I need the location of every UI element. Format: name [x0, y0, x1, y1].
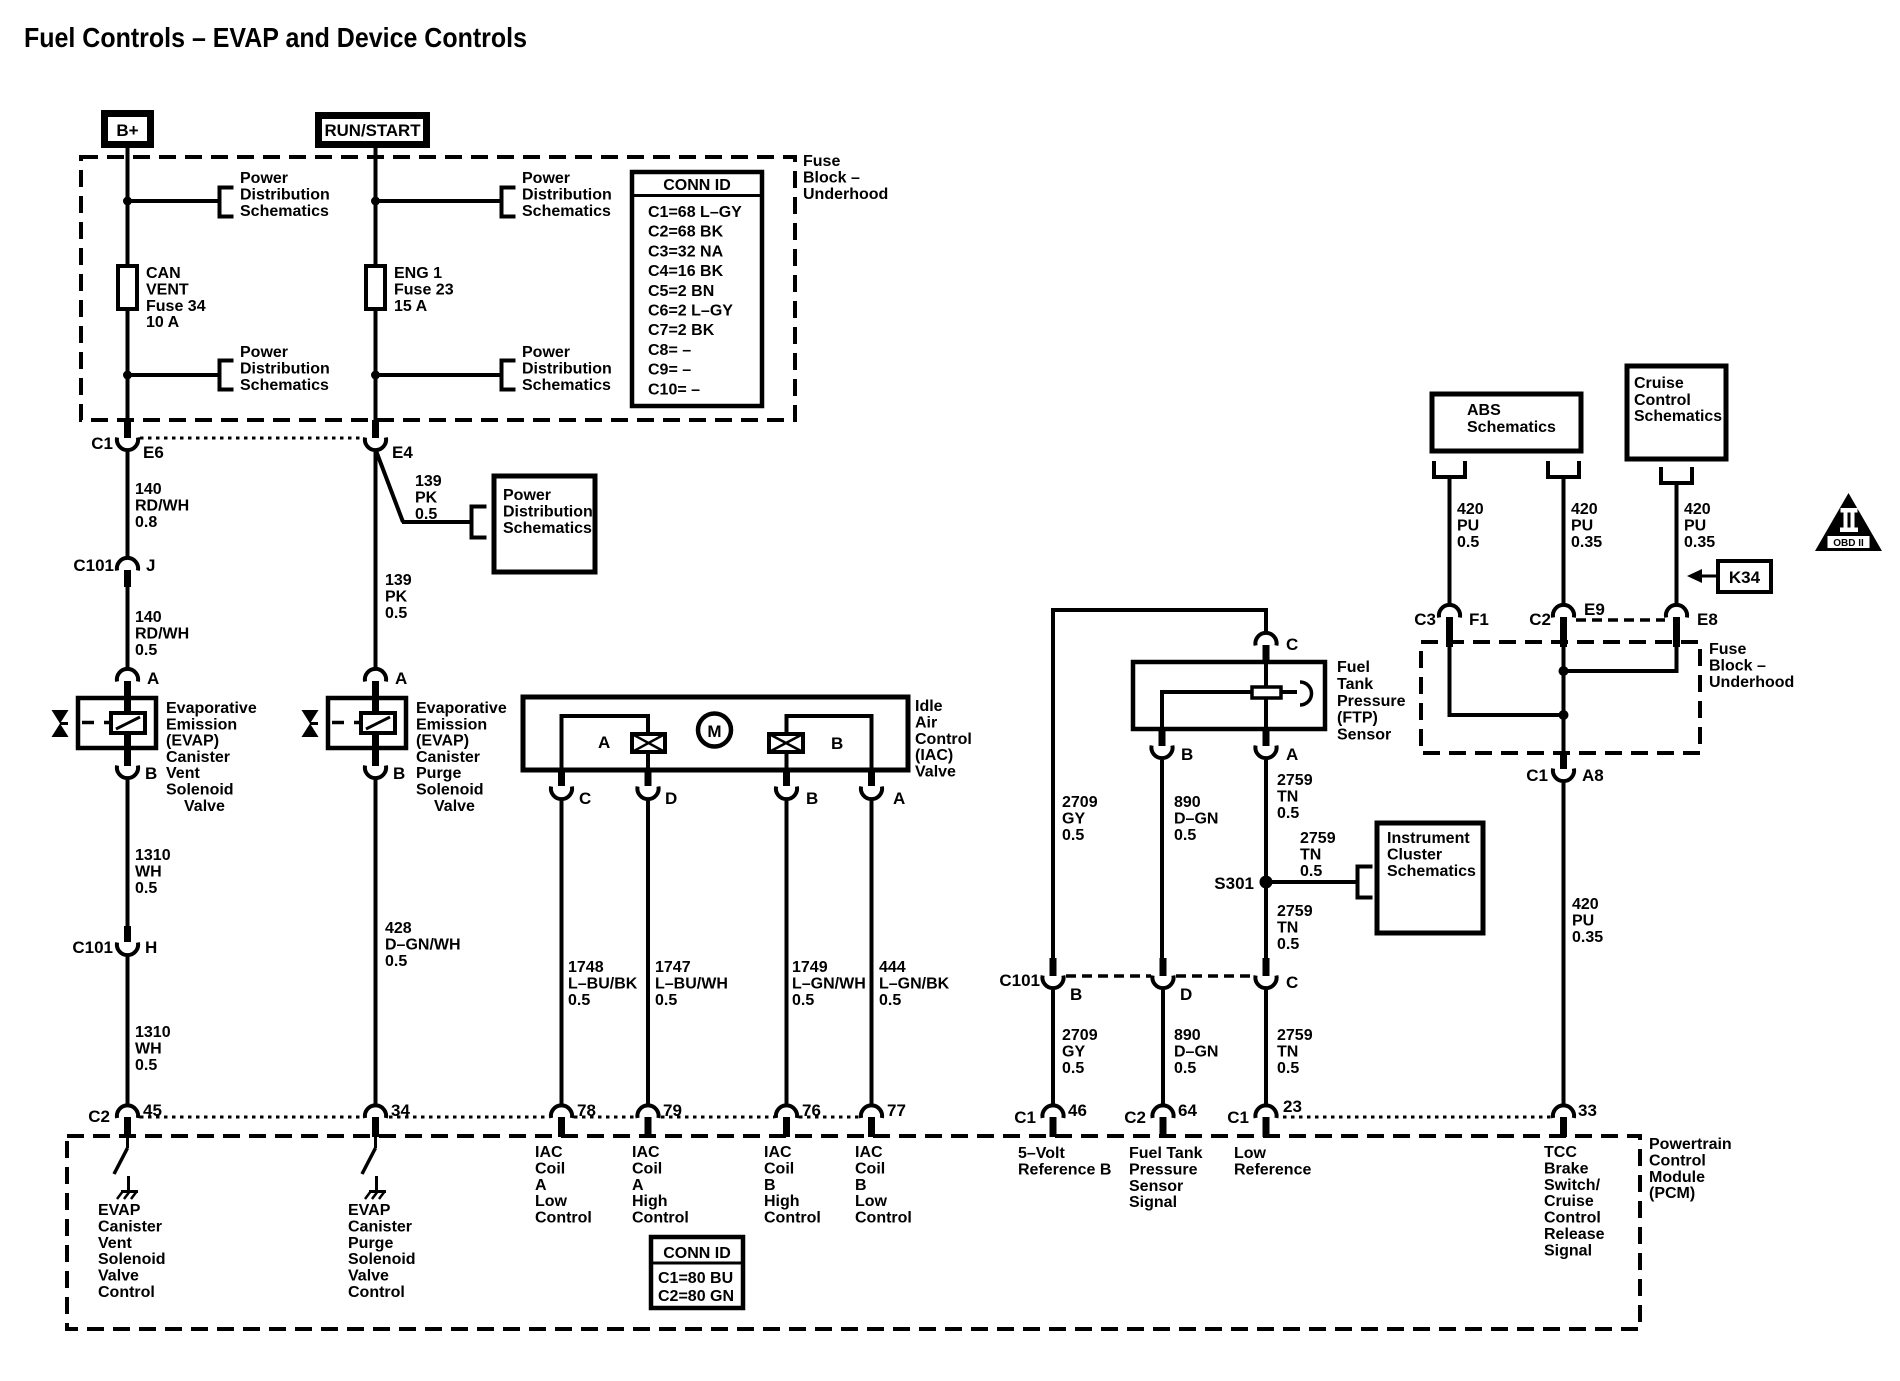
wire 420 PU 0.35 (cruise): [1675, 483, 1679, 603]
svg-text:E4: E4: [392, 443, 413, 462]
wire 420 PU 0.35 (abs): [1562, 477, 1566, 603]
svg-text:1748: 1748: [568, 959, 604, 976]
label IAC Coil A High Control: [632, 1144, 689, 1227]
label Idle Air Control (IAC) Valve: [915, 698, 972, 781]
label 420 PU 0.35 (cruise): [1684, 501, 1715, 551]
label 5-Volt Reference B: [1018, 1145, 1111, 1178]
IAC coil B inner wiring: [787, 716, 872, 768]
svg-text:B: B: [855, 1177, 867, 1194]
svg-text:C4=16 BK: C4=16 BK: [648, 263, 724, 280]
label Power Distribution Schematics (lower left): [240, 344, 330, 394]
svg-text:890: 890: [1174, 1027, 1201, 1044]
label 2759 TN 0.5 lower: [1277, 1027, 1313, 1077]
label 890 D-GN 0.5 upper: [1174, 794, 1218, 844]
svg-text:(IAC): (IAC): [915, 747, 953, 764]
svg-text:A: A: [1286, 745, 1298, 764]
svg-text:33: 33: [1578, 1101, 1597, 1120]
label 2759 TN 0.5 (A to S301): [1277, 772, 1313, 822]
FTP sensor wiper curve: [1300, 682, 1312, 705]
svg-text:Distribution: Distribution: [240, 360, 330, 377]
IAC coil B winding symbol: [769, 734, 803, 752]
label 1747 L-BU/WH 0.5: [655, 959, 728, 1009]
svg-text:D: D: [665, 789, 677, 808]
svg-text:Cluster: Cluster: [1387, 846, 1442, 863]
svg-text:0.5: 0.5: [1174, 827, 1196, 844]
fuse block underhood enclosure (dashed): [81, 157, 795, 420]
svg-text:Emission: Emission: [166, 716, 237, 733]
svg-text:Schematics: Schematics: [522, 203, 611, 220]
svg-text:140: 140: [135, 481, 162, 498]
svg-text:Fuel: Fuel: [1337, 659, 1370, 676]
wire 1747 L-BU/WH 0.5: [646, 801, 650, 1104]
label 428 D-GN/WH 0.5: [385, 920, 461, 970]
EVAP canister purge solenoid valve: [302, 698, 407, 749]
svg-text:B: B: [764, 1177, 776, 1194]
svg-text:A: A: [893, 789, 905, 808]
svg-text:Brake: Brake: [1544, 1160, 1589, 1177]
svg-text:B: B: [806, 789, 818, 808]
svg-text:Power: Power: [240, 344, 288, 361]
connector pin 79: [637, 1101, 682, 1137]
svg-text:C2=68 BK: C2=68 BK: [648, 224, 724, 241]
svg-text:B: B: [831, 734, 843, 753]
svg-text:2759: 2759: [1277, 772, 1313, 789]
svg-text:139: 139: [385, 572, 412, 589]
svg-text:Signal: Signal: [1129, 1194, 1177, 1211]
svg-text:0.5: 0.5: [1277, 1060, 1299, 1077]
junction node fuse block upper: [1559, 666, 1569, 676]
svg-text:OBD II: OBD II: [1833, 538, 1864, 549]
wire 2709 GY 0.5 upper: [1051, 956, 1055, 960]
powertrain control module enclosure (dashed): [67, 1136, 1640, 1329]
wire 139 PK diagonal branch: [377, 452, 404, 522]
svg-text:RD/WH: RD/WH: [135, 497, 189, 514]
svg-text:Instrument: Instrument: [1387, 830, 1470, 847]
wire 420 PU 0.5: [1448, 477, 1452, 603]
wire 1748 L-BU/BK 0.5: [560, 801, 564, 1104]
svg-text:J: J: [146, 556, 155, 575]
svg-text:Coil: Coil: [535, 1160, 565, 1177]
wire 139 PK horizontal: [402, 520, 471, 524]
wire 890 D-GN 0.5 upper: [1160, 760, 1164, 958]
svg-text:High: High: [764, 1193, 800, 1210]
svg-text:A: A: [147, 669, 159, 688]
svg-text:C1=80 BU: C1=80 BU: [658, 1270, 733, 1287]
svg-text:B+: B+: [116, 121, 138, 140]
svg-text:C2: C2: [88, 1107, 110, 1126]
svg-text:Low: Low: [855, 1193, 888, 1210]
svg-text:C: C: [579, 789, 591, 808]
svg-text:420: 420: [1457, 501, 1484, 518]
svg-text:C101: C101: [73, 556, 114, 575]
svg-text:CONN ID: CONN ID: [663, 177, 731, 194]
svg-text:TN: TN: [1300, 846, 1321, 863]
wire 2759 TN 0.5 lower: [1264, 990, 1268, 1104]
svg-text:L–BU/WH: L–BU/WH: [655, 975, 728, 992]
svg-text:Control: Control: [632, 1210, 689, 1227]
svg-text:46: 46: [1068, 1101, 1087, 1120]
fuse CAN VENT Fuse 34 10A: [118, 265, 206, 331]
svg-text:F1: F1: [1469, 610, 1489, 629]
wire 890 D-GN 0.5 lower: [1161, 990, 1165, 1104]
label Evaporative Emission (EVAP) Canister Vent Solenoid Valve: [166, 700, 257, 815]
svg-text:Power: Power: [522, 170, 570, 187]
IAC coil B high stub from winding: [785, 752, 789, 768]
svg-text:Valve: Valve: [184, 798, 225, 815]
svg-text:H: H: [145, 938, 157, 957]
wire S301 to instrument cluster: [1266, 880, 1357, 884]
connector pin E4: [365, 420, 413, 462]
power feed RUN/START: [319, 116, 427, 145]
svg-text:L–GN/BK: L–GN/BK: [879, 975, 950, 992]
svg-text:IAC: IAC: [764, 1144, 792, 1161]
svg-text:ENG 1: ENG 1: [394, 265, 442, 282]
label 2709 GY 0.5 upper: [1062, 794, 1098, 844]
svg-text:E9: E9: [1584, 600, 1605, 619]
svg-text:A: A: [632, 1177, 644, 1194]
svg-text:Block –: Block –: [1709, 657, 1766, 674]
label Fuse Block - Underhood (top): [803, 153, 888, 203]
svg-text:0.5: 0.5: [792, 992, 814, 1009]
svg-text:C3=32 NA: C3=32 NA: [648, 243, 724, 260]
label EVAP Canister Purge Solenoid Valve Control: [348, 1202, 416, 1301]
relay K34 callout: [1687, 561, 1771, 592]
svg-text:Pressure: Pressure: [1129, 1161, 1198, 1178]
svg-text:IAC: IAC: [855, 1144, 883, 1161]
label EVAP Canister Vent Solenoid Valve Control: [98, 1202, 166, 1301]
svg-text:Valve: Valve: [98, 1268, 139, 1285]
svg-text:Control: Control: [915, 731, 972, 748]
label Power Distribution Schematics (box): [503, 487, 593, 537]
connector pin A (EVAP vent valve): [117, 669, 159, 698]
svg-text:Signal: Signal: [1544, 1242, 1592, 1259]
svg-text:139: 139: [415, 473, 442, 490]
wire to power distribution (lower left): [128, 373, 220, 377]
svg-text:Pressure: Pressure: [1337, 693, 1406, 710]
svg-text:1747: 1747: [655, 959, 691, 976]
svg-text:Canister: Canister: [98, 1218, 162, 1235]
title Fuel Controls – EVAP and Device Controls: [24, 22, 527, 53]
power feed B+: [105, 114, 151, 145]
svg-text:0.5: 0.5: [415, 506, 437, 523]
svg-text:Vent: Vent: [166, 765, 200, 782]
svg-text:Solenoid: Solenoid: [348, 1251, 416, 1268]
svg-text:C10= –: C10= –: [648, 381, 700, 398]
svg-text:Valve: Valve: [348, 1268, 389, 1285]
junction node fuse block lower: [1559, 710, 1569, 720]
IAC motor M: [698, 714, 731, 747]
IAC coil A low stub from winding: [646, 752, 650, 768]
label 2759 TN 0.5 (splice branch): [1300, 830, 1336, 880]
svg-text:K34: K34: [1729, 568, 1761, 587]
connector pin C (IAC): [551, 770, 591, 808]
FTP sensor resistor element: [1252, 687, 1281, 698]
svg-text:Canister: Canister: [166, 749, 230, 766]
svg-text:PU: PU: [1684, 517, 1706, 534]
instrument cluster schematics box: [1377, 823, 1483, 933]
label Power Distribution Schematics (upper right): [522, 170, 612, 220]
connector pin 76: [776, 1101, 821, 1137]
svg-text:Solenoid: Solenoid: [416, 782, 484, 799]
wire B+ feed vertical: [126, 147, 130, 421]
svg-text:2759: 2759: [1300, 830, 1336, 847]
label 1310 WH 0.5 lower: [135, 1024, 171, 1074]
svg-text:L–BU/BK: L–BU/BK: [568, 975, 638, 992]
svg-text:Emission: Emission: [416, 716, 487, 733]
wire to power distribution (upper right): [376, 199, 502, 203]
svg-text:D–GN: D–GN: [1174, 1043, 1218, 1060]
EVAP canister vent solenoid valve: [52, 698, 157, 749]
cruise control schematics box: [1627, 366, 1726, 459]
fuse block underhood enclosure right (dashed): [1421, 642, 1700, 753]
IAC valve box: [523, 697, 908, 770]
label 139 PK 0.5 (vertical): [385, 572, 412, 622]
label 420 PU 0.35 (abs): [1571, 501, 1602, 551]
connector C2 pin E9: [1529, 600, 1605, 647]
svg-text:Block –: Block –: [803, 169, 860, 186]
label IAC Coil B Low Control: [855, 1144, 912, 1227]
svg-text:Air: Air: [915, 714, 937, 731]
svg-text:Tank: Tank: [1337, 676, 1373, 693]
svg-text:Control: Control: [535, 1210, 592, 1227]
svg-text:Control: Control: [1634, 392, 1691, 409]
connector pin A (FTP sensor): [1255, 729, 1298, 764]
connector C1 pin 46: [1014, 1101, 1087, 1137]
instrument cluster schematics stub: [1358, 867, 1373, 898]
label Low Reference: [1234, 1145, 1311, 1178]
svg-text:(PCM): (PCM): [1649, 1185, 1695, 1202]
junction node RUN/START lower: [371, 371, 380, 380]
wire 1310 WH 0.5 lower: [126, 957, 130, 1104]
label 2759 TN 0.5 (S301 down): [1277, 903, 1313, 953]
label 2709 GY 0.5 lower: [1062, 1027, 1098, 1077]
svg-text:GY: GY: [1062, 810, 1085, 827]
svg-text:Control: Control: [1649, 1152, 1706, 1169]
svg-text:444: 444: [879, 959, 906, 976]
junction node RUN/START upper: [371, 197, 380, 206]
svg-text:0.5: 0.5: [1277, 936, 1299, 953]
svg-text:TN: TN: [1277, 1043, 1298, 1060]
label IAC Coil A Low Control: [535, 1144, 592, 1227]
svg-text:Schematics: Schematics: [503, 520, 592, 537]
svg-text:Schematics: Schematics: [1634, 408, 1722, 425]
svg-text:Schematics: Schematics: [522, 377, 611, 394]
wire 2759 TN 0.5 (S301 down): [1264, 888, 1268, 958]
svg-text:(EVAP): (EVAP): [166, 733, 219, 750]
label Fuel Tank Pressure Sensor Signal: [1129, 1145, 1203, 1211]
label 140 RD/WH 0.5: [135, 609, 189, 659]
svg-text:Fuse: Fuse: [1709, 641, 1746, 658]
CONN ID table (fuse block): [632, 172, 762, 406]
svg-text:C6=2 L–GY: C6=2 L–GY: [648, 303, 733, 320]
label 140 RD/WH 0.8: [135, 481, 189, 531]
svg-text:0.5: 0.5: [385, 605, 407, 622]
power distribution schematics box: [494, 476, 595, 572]
label Evaporative Emission (EVAP) Canister Purge Solenoid Valve: [416, 700, 507, 815]
svg-text:Reference B: Reference B: [1018, 1161, 1111, 1178]
svg-text:EVAP: EVAP: [98, 1202, 141, 1219]
svg-text:Power: Power: [240, 170, 288, 187]
svg-text:Control: Control: [855, 1210, 912, 1227]
connector C101 pin C: [1255, 958, 1298, 992]
svg-text:0.5: 0.5: [1457, 534, 1479, 551]
connector C1 pin 23: [1227, 1097, 1302, 1137]
svg-text:Valve: Valve: [915, 764, 956, 781]
svg-text:PU: PU: [1457, 517, 1479, 534]
svg-text:Canister: Canister: [348, 1218, 412, 1235]
ABS schematics box: [1432, 394, 1581, 451]
label 420 PU 0.5: [1457, 501, 1484, 551]
svg-text:(FTP): (FTP): [1337, 710, 1378, 727]
svg-text:C1: C1: [91, 434, 113, 453]
connector pin C (FTP sensor): [1255, 633, 1298, 662]
connector pin 34: [365, 1101, 411, 1137]
svg-text:C: C: [1286, 973, 1298, 992]
svg-text:A8: A8: [1582, 766, 1604, 785]
svg-text:Evaporative: Evaporative: [416, 700, 507, 717]
svg-text:0.5: 0.5: [1062, 827, 1084, 844]
svg-text:2759: 2759: [1277, 903, 1313, 920]
junction node B+ lower: [123, 371, 132, 380]
svg-text:E6: E6: [143, 443, 164, 462]
connector pin E8: [1666, 605, 1718, 647]
in-line connector dashed line (E9-E8): [1576, 618, 1665, 622]
svg-text:Idle: Idle: [915, 698, 943, 715]
svg-text:Valve: Valve: [434, 798, 475, 815]
svg-text:Underhood: Underhood: [803, 186, 888, 203]
svg-text:10 A: 10 A: [146, 314, 180, 331]
svg-text:PK: PK: [415, 489, 438, 506]
svg-text:Coil: Coil: [632, 1160, 662, 1177]
label IAC Coil B High Control: [764, 1144, 821, 1227]
svg-text:420: 420: [1571, 501, 1598, 518]
svg-text:C5=2 BN: C5=2 BN: [648, 283, 714, 300]
fuse block right inner wire E8 branch: [1564, 647, 1677, 671]
connector C3 pin F1: [1414, 605, 1489, 647]
svg-text:C3: C3: [1414, 610, 1436, 629]
label 139 PK 0.5 (branch): [415, 473, 442, 523]
svg-text:WH: WH: [135, 863, 162, 880]
svg-text:Solenoid: Solenoid: [98, 1251, 166, 1268]
label Instrument Cluster Schematics: [1387, 830, 1476, 880]
svg-text:ABS: ABS: [1467, 402, 1501, 419]
svg-text:L–GN/WH: L–GN/WH: [792, 975, 866, 992]
svg-text:Fuel Controls – EVAP and Devic: Fuel Controls – EVAP and Device Controls: [24, 22, 527, 53]
IAC coil A inner wiring: [562, 716, 649, 768]
svg-text:0.5: 0.5: [655, 992, 677, 1009]
svg-text:Cruise: Cruise: [1544, 1193, 1594, 1210]
svg-text:M: M: [707, 722, 721, 741]
svg-text:Distribution: Distribution: [240, 186, 330, 203]
svg-text:Schematics: Schematics: [240, 203, 329, 220]
wire 140 RD/WH 0.5: [126, 587, 130, 667]
CONN ID table (PCM): [651, 1237, 743, 1308]
wire 140 RD/WH 0.8: [126, 452, 130, 556]
label 890 D-GN 0.5 lower: [1174, 1027, 1218, 1077]
in-line connector dashed line (C101 right): [1066, 974, 1253, 978]
wire 2709 GY top run: [1053, 610, 1266, 958]
svg-text:VENT: VENT: [146, 281, 189, 298]
svg-text:Schematics: Schematics: [240, 377, 329, 394]
svg-text:420: 420: [1684, 501, 1711, 518]
svg-text:IAC: IAC: [535, 1144, 563, 1161]
svg-text:B: B: [1181, 745, 1193, 764]
svg-text:420: 420: [1572, 896, 1599, 913]
svg-text:CAN: CAN: [146, 265, 181, 282]
svg-text:1310: 1310: [135, 847, 171, 864]
connector pin 78: [551, 1101, 596, 1137]
power distribution schematics stub (lower right): [502, 361, 516, 390]
svg-text:2709: 2709: [1062, 794, 1098, 811]
label coil A: [598, 733, 610, 752]
FTP sensor inner wiring: [1162, 662, 1297, 729]
svg-text:C2=80 GN: C2=80 GN: [658, 1288, 734, 1305]
label Cruise Control Schematics: [1634, 375, 1722, 425]
svg-text:0.5: 0.5: [1277, 805, 1299, 822]
svg-text:0.35: 0.35: [1572, 929, 1603, 946]
svg-text:Switch/: Switch/: [1544, 1177, 1601, 1194]
connector C101 pin D: [1152, 958, 1192, 1004]
EVAP purge control driver switch: [362, 1137, 377, 1191]
connector C1 pin E6: [91, 420, 164, 462]
svg-text:PU: PU: [1571, 517, 1593, 534]
svg-text:Fuse: Fuse: [803, 153, 840, 170]
label TCC Brake Switch Cruise Control Release Signal: [1544, 1144, 1605, 1259]
svg-text:Powertrain: Powertrain: [1649, 1136, 1732, 1153]
label 1310 WH 0.5 upper: [135, 847, 171, 897]
wire 1310 WH 0.5 upper: [126, 780, 130, 926]
svg-text:EVAP: EVAP: [348, 1202, 391, 1219]
connector C2 pin 45: [88, 1101, 162, 1137]
svg-text:TCC: TCC: [1544, 1144, 1577, 1161]
connector C1 pin A8: [1526, 753, 1603, 785]
svg-text:Distribution: Distribution: [522, 186, 612, 203]
connector pin 77: [861, 1101, 906, 1137]
svg-text:C: C: [1286, 635, 1298, 654]
svg-text:1749: 1749: [792, 959, 828, 976]
svg-text:Control: Control: [1544, 1210, 1601, 1227]
svg-text:Fuse 23: Fuse 23: [394, 281, 454, 298]
svg-text:CONN ID: CONN ID: [663, 1245, 731, 1262]
svg-text:RUN/START: RUN/START: [325, 121, 422, 140]
label 420 PU 0.35 (to PCM): [1572, 896, 1603, 946]
in-line connector dotted line (PCM row left): [140, 1116, 859, 1119]
connector C101 pin B: [999, 958, 1082, 1004]
connector pin B (EVAP purge valve): [365, 748, 405, 783]
connector pin B (IAC): [776, 770, 818, 808]
ground (purge driver): [365, 1191, 386, 1199]
svg-text:RD/WH: RD/WH: [135, 625, 189, 642]
svg-text:890: 890: [1174, 794, 1201, 811]
svg-text:23: 23: [1283, 1097, 1302, 1116]
svg-text:0.8: 0.8: [135, 514, 157, 531]
label Fuel Tank Pressure (FTP) Sensor: [1337, 659, 1406, 744]
wire 139 PK 0.5 vertical: [374, 452, 378, 667]
svg-text:0.5: 0.5: [879, 992, 901, 1009]
svg-text:2759: 2759: [1277, 1027, 1313, 1044]
svg-text:Control: Control: [764, 1210, 821, 1227]
svg-text:0.5: 0.5: [568, 992, 590, 1009]
label Power Distribution Schematics (lower right): [522, 344, 612, 394]
svg-text:B: B: [1070, 985, 1082, 1004]
svg-text:2709: 2709: [1062, 1027, 1098, 1044]
junction node B+ upper: [123, 197, 132, 206]
svg-text:Evaporative: Evaporative: [166, 700, 257, 717]
fuse ENG 1 Fuse 23 15A: [366, 265, 454, 315]
svg-text:D–GN/WH: D–GN/WH: [385, 936, 461, 953]
connector pin D (IAC): [637, 770, 677, 808]
svg-text:0.35: 0.35: [1571, 534, 1602, 551]
